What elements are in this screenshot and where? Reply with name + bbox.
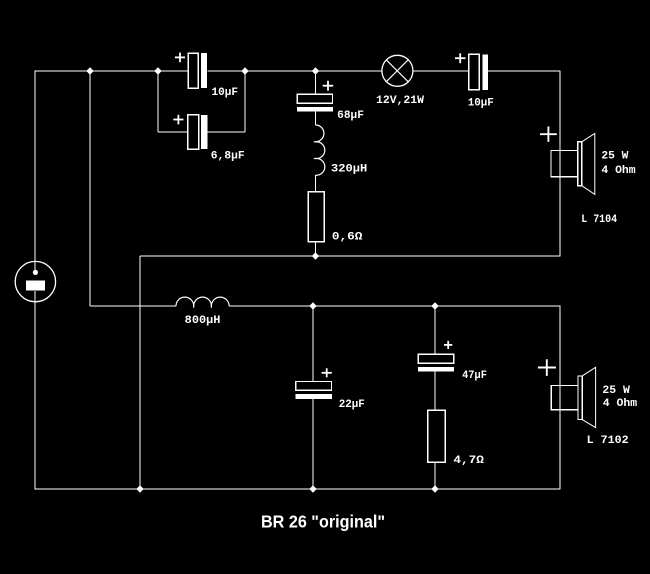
svg-text:BR 26 "original": BR 26 "original" [261, 512, 385, 532]
wire woofer bus y=306 right of coil [229, 305, 561, 307]
svg-text:4,7Ω: 4,7Ω [453, 455, 484, 467]
capacitor C3 plus sign [323, 81, 334, 91]
wire top bus y=71 left segment [35, 70, 189, 72]
svg-text:6,8µF: 6,8µF [211, 151, 245, 163]
wire 68uF branch upper x=315.5 [315, 71, 317, 95]
wire tweeter return bus y=256 [140, 255, 561, 257]
svg-text:10µF: 10µF [212, 87, 239, 99]
wire 6,8uF row y=132 right [208, 131, 246, 133]
junction node y=306 x=313 [309, 302, 316, 309]
speaker LS2 plus sign [538, 359, 556, 376]
lamp LA1 12V,21W [382, 55, 413, 86]
svg-text:10µF: 10µF [468, 97, 494, 109]
wire 6,8uF row y=132 left [158, 131, 188, 133]
junction node top bus x=158 [154, 67, 161, 74]
junction node y=489 x=140 [136, 485, 143, 492]
svg-text:12V,21W: 12V,21W [376, 95, 424, 107]
svg-text:800µH: 800µH [185, 315, 221, 327]
svg-text:0,6Ω: 0,6Ω [332, 232, 363, 244]
capacitor C5 22uF plates [296, 382, 332, 400]
speaker LS1 tweeter [551, 133, 595, 194]
junction node top bus x=245 [241, 67, 248, 74]
junction node y=489 x=313 [309, 485, 316, 492]
capacitor C4 plus sign [455, 53, 466, 63]
svg-text:25 W: 25 W [602, 385, 630, 397]
inductor L2 800uH [176, 297, 229, 308]
speaker LS1 plus sign [540, 127, 557, 142]
wire parallel-cap left vertical x=158 [157, 71, 159, 132]
svg-text:320µH: 320µH [331, 164, 367, 176]
capacitor C3 68uF plates [297, 94, 333, 111]
speaker LS2 woofer [551, 367, 595, 427]
wire vertical x=140 [139, 256, 141, 489]
capacitor C1 plus sign [175, 53, 185, 63]
capacitor C1 10uF plates [188, 53, 207, 88]
junction node y=306 x=435 [431, 302, 438, 309]
svg-text:68µF: 68µF [337, 110, 364, 122]
wire 68uF-to-coil x=315.5 [315, 112, 317, 126]
wire top bus y=71 mid segment [208, 70, 383, 72]
svg-text:L 7104: L 7104 [581, 214, 617, 226]
junction node top bus x=90 [86, 67, 93, 74]
wire coil-to-resistor x=315.5 [315, 175, 317, 192]
resistor R2 4,7ohm [428, 410, 446, 462]
capacitor C2 6,8uF plates [188, 115, 208, 149]
wire 22uF branch lower x=313 [312, 399, 314, 489]
junction node top bus x=315.5 [312, 67, 319, 74]
wire woofer vertical x=560 [559, 306, 561, 489]
svg-text:4 Ohm: 4 Ohm [601, 165, 636, 177]
wire 22uF branch upper x=313 [312, 306, 314, 382]
wire 47uF-to-resistor x=435 [434, 372, 436, 411]
inductor L1 320uH [314, 125, 325, 175]
resistor R1 0,6ohm [308, 192, 324, 242]
svg-text:L 7102: L 7102 [587, 435, 629, 447]
svg-text:22µF: 22µF [339, 399, 365, 411]
wire 47uF branch upper x=435 [434, 306, 436, 355]
svg-text:4 Ohm: 4 Ohm [603, 398, 638, 410]
capacitor C4 10uF plates [469, 54, 488, 90]
junction node y=256 x=315.5 [312, 252, 319, 259]
wire left vertical x=35 below connector [34, 291, 36, 489]
wire bottom bus y=489 [35, 488, 561, 490]
wire resistor-to-bus x=315.5 [315, 242, 317, 256]
junction node y=489 x=435 [431, 485, 438, 492]
wire top bus y=71 right segment [488, 70, 561, 72]
wire left vertical x=35 to connector [34, 71, 36, 270]
capacitor C6 47uF plates [418, 354, 454, 371]
wire vertical x=90 [89, 71, 91, 306]
wire resistor-to-bus lower x=435 [434, 462, 436, 489]
input connector X1 [15, 261, 55, 301]
wire woofer bus y=306 left of coil [90, 305, 176, 307]
wire parallel-cap right vertical x=245 [244, 71, 246, 132]
wire tweeter vertical x=560 [559, 71, 561, 256]
svg-text:25 W: 25 W [601, 150, 628, 162]
svg-text:47µF: 47µF [462, 370, 487, 382]
capacitor C2 plus sign [173, 115, 183, 125]
capacitor C5 plus sign [322, 368, 332, 377]
capacitor C6 plus sign [444, 341, 452, 349]
wire top bus y=71 lamp-to-cap segment [413, 70, 470, 72]
